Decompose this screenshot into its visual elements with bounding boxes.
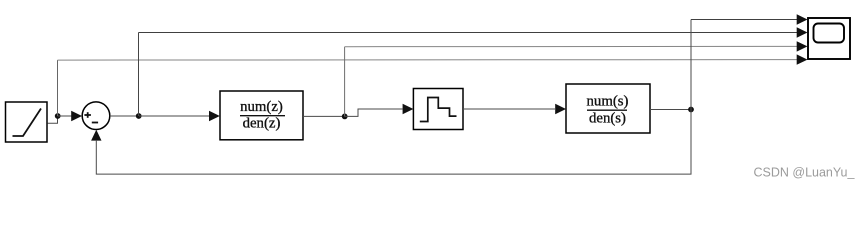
- wire to scope input 4: [58, 59, 798, 62]
- wire zoh to continuous tf: [463, 108, 555, 110]
- scope block: [808, 18, 850, 59]
- wire node C up to scope line 3: [344, 47, 346, 117]
- arrowhead scope input 2: [797, 27, 808, 37]
- node D (branch after continuous tf): [688, 107, 694, 113]
- node A (branch after ramp): [55, 113, 61, 119]
- feedback wire node D down and left: [96, 110, 691, 175]
- wire node A up to scope line 4: [57, 60, 59, 116]
- discrete transfer fcn block num(z)/den(z): [220, 91, 303, 140]
- wire node D up to scope input 1: [690, 20, 692, 110]
- arrowhead scope input 4: [797, 54, 808, 64]
- arrowhead into sum: [71, 111, 82, 121]
- svg-text:den(z): den(z): [243, 115, 281, 131]
- sum output wire to node B: [110, 115, 139, 117]
- svg-text:num(s): num(s): [587, 94, 629, 110]
- arrowhead into continuous tf: [555, 104, 566, 114]
- node C (branch after discrete tf): [342, 114, 348, 120]
- node B (branch after sum): [136, 113, 142, 119]
- ramp source block: [6, 102, 48, 142]
- arrowhead scope input 3: [797, 41, 808, 51]
- svg-text:CSDN @LuanYu_: CSDN @LuanYu_: [754, 166, 856, 180]
- wire ramp output to node A: [48, 116, 58, 123]
- wire node B up to scope line 2: [138, 33, 140, 117]
- continuous transfer fcn block num(s)/den(s): [566, 84, 650, 133]
- wire node A to sum input: [58, 115, 74, 117]
- arrowhead scope input 1: [797, 14, 808, 24]
- wire to scope input 1: [691, 19, 798, 21]
- svg-text:num(z): num(z): [240, 99, 283, 115]
- wire to scope input 3: [345, 45, 798, 47]
- zero-order hold block: [413, 89, 463, 130]
- wire to scope input 2: [139, 32, 798, 34]
- wire continuous tf output to node D: [650, 109, 691, 111]
- sum junction: [82, 102, 110, 130]
- arrowhead into sum bottom (minus input): [91, 130, 101, 141]
- svg-text:den(s): den(s): [589, 111, 626, 127]
- wire discrete tf output to node C: [303, 115, 345, 117]
- wire node B to discrete tf: [139, 115, 209, 117]
- arrowhead into discrete tf: [209, 111, 220, 121]
- wire node C jog to zero-order hold: [345, 109, 403, 116]
- arrowhead into zero-order hold: [403, 104, 414, 114]
